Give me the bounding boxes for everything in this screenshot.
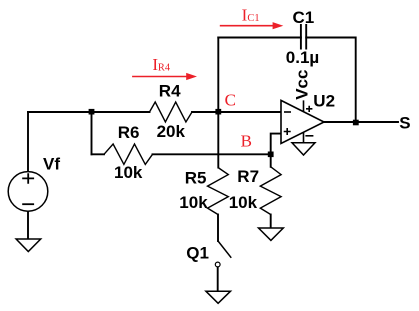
svg-text:R4: R4 [159,81,181,100]
svg-text:R7: R7 [237,167,259,186]
svg-text:R6: R6 [118,123,140,142]
svg-text:Q1: Q1 [186,244,209,263]
svg-text:10k: 10k [179,193,208,212]
svg-text:C1: C1 [293,8,315,27]
svg-text:R5: R5 [185,168,207,187]
svg-text:C1: C1 [247,13,259,24]
svg-text:S: S [399,113,410,132]
svg-text:20k: 20k [157,122,186,141]
svg-text:R4: R4 [158,63,171,74]
svg-text:0.1µ: 0.1µ [286,48,319,67]
svg-text:Vcc: Vcc [293,70,312,100]
svg-text:10k: 10k [114,163,143,182]
svg-text:Vf: Vf [43,155,60,174]
svg-text:U2: U2 [313,92,335,111]
svg-text:B: B [241,132,252,151]
svg-text:C: C [225,90,236,109]
svg-text:10k: 10k [229,193,258,212]
